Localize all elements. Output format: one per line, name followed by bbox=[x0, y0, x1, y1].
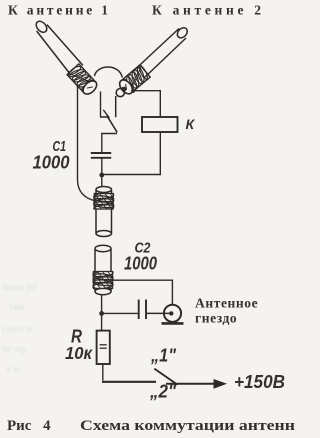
wire: cable 2 bottom to junction 2 bbox=[101, 295, 103, 331]
wire: junction down into cable section 1 bbox=[101, 175, 103, 188]
svg-text:К антенне 1: К антенне 1 bbox=[8, 3, 111, 18]
resistor R bbox=[97, 331, 110, 364]
svg-text:Рис: Рис bbox=[7, 418, 32, 434]
wire: small loop at cable end under dome bbox=[116, 89, 124, 97]
wire: right branch from L2 to relay coil bbox=[131, 89, 135, 93]
wire: feeder tube to antenna 1 bbox=[34, 19, 83, 74]
svg-text:щим рл: щим рл bbox=[2, 281, 37, 293]
wire: from L1 end cap down to fixed relay contact bbox=[100, 92, 109, 118]
svg-text:К: К bbox=[186, 116, 196, 132]
svg-text:а н: а н bbox=[6, 363, 20, 375]
node: junction of C1, relay and cable 1 bbox=[99, 173, 104, 178]
inductor L2 (choke on antenna-2 cable) bbox=[117, 64, 152, 97]
inductor L1 (choke on antenna-1 cable) bbox=[65, 62, 99, 96]
cable section 1 (coax cylinder) bbox=[96, 187, 112, 237]
capacitor (coupling, to antenna socket) bbox=[139, 300, 146, 320]
capacitor C1 bbox=[91, 153, 111, 158]
switch SA (power selector) blade bbox=[154, 369, 177, 385]
svg-text:1000: 1000 bbox=[33, 151, 71, 172]
wire: switch to +150V with arrow bbox=[166, 383, 215, 385]
svg-text:10к: 10к bbox=[65, 343, 93, 363]
wire: dome loop between chokes bbox=[95, 67, 123, 78]
wire: C1 to junction bbox=[101, 158, 103, 175]
svg-text:Схема коммутации антенн: Схема коммутации антенн bbox=[80, 418, 295, 434]
relay contact K1.1 (switch blade) bbox=[107, 115, 117, 132]
node: junction of cable 2, coupling cap and R bbox=[99, 311, 104, 316]
wire: junction 2 to coupling capacitor bbox=[102, 312, 138, 314]
svg-text:гнездо: гнездо bbox=[195, 311, 237, 326]
inductor: winding on cable section 2 bbox=[77, 270, 143, 290]
cable section 2 (coax cylinder) bbox=[95, 245, 111, 294]
svg-text:Антенное: Антенное bbox=[195, 296, 258, 311]
svg-text:1нв: 1нв bbox=[8, 301, 25, 313]
wire: left shield drop from L1 into winding of cable section 1 bbox=[78, 86, 96, 201]
inductor: winding on cable section 1 bbox=[79, 192, 138, 212]
wire: capacitor to socket center bbox=[146, 312, 172, 314]
relay coil K bbox=[142, 117, 178, 132]
wire: relay coil bottom to junction node bbox=[102, 132, 161, 175]
svg-text:+150В: +150В bbox=[234, 372, 285, 392]
wire: from winding 2 to antenna socket bbox=[113, 280, 173, 304]
wire: below blade to C1 bbox=[102, 134, 117, 153]
wire: feeder tube to antenna 2 bbox=[135, 26, 189, 78]
svg-text:снтп н: снтп н bbox=[2, 323, 32, 335]
svg-text:пг нр: пг нр bbox=[2, 343, 27, 355]
wire: R to selector switch bbox=[102, 364, 104, 381]
svg-text:4: 4 bbox=[43, 418, 51, 434]
wire: center conductor stub down from dome bbox=[115, 96, 117, 117]
svg-text:„1": „1" bbox=[150, 345, 176, 366]
svg-text:1000: 1000 bbox=[124, 253, 158, 274]
connector: antenna socket bbox=[164, 305, 181, 322]
svg-text:К антенне 2: К антенне 2 bbox=[152, 3, 265, 18]
